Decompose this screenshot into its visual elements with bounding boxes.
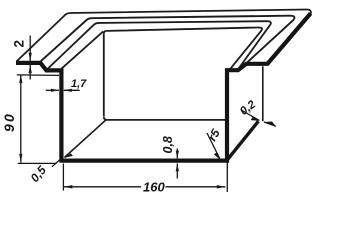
dimension 2 arrowhead lower <box>29 65 32 73</box>
dimension 2: leader line and arrows <box>29 36 31 80</box>
dimension 0,2: leader arrows at far bottom-right corner <box>241 110 260 121</box>
svg-text:90: 90 <box>1 112 17 132</box>
svg-text:160: 160 <box>143 180 165 195</box>
wire: far right wall silhouette vertical <box>262 66 264 121</box>
dimension 2 arrowhead upper <box>29 53 32 61</box>
wire: left flange outer edge receding to back rim (L1+T1) <box>16 9 311 61</box>
svg-text:0,8: 0,8 <box>161 136 175 153</box>
wire: flange bend line (L2+T2+R2) <box>40 16 294 64</box>
wire: interior back-bottom edge <box>104 117 226 120</box>
wire: interior bottom-left corner edge (doubles as 0.5 leader) <box>65 119 107 157</box>
dimension 0,5: arrowhead at bottom-left inner corner <box>64 153 73 158</box>
wire: bottom-right receding outer edge <box>228 121 259 159</box>
wire: inner rim edge (L4 diagonal) <box>60 31 103 70</box>
svg-text:1,7: 1,7 <box>71 78 87 90</box>
dimension r5: leader with arrow to inner bottom-right bend <box>207 133 220 159</box>
svg-text:2: 2 <box>12 40 27 48</box>
dimension 160 <box>63 163 227 193</box>
front section outline (thick cut line: left flange, left wall, bottom, right wall, right flange) <box>16 13 311 160</box>
dimension 1,7 <box>46 89 80 91</box>
dimension 0,8 <box>176 149 178 179</box>
wire: interior top edge + right inner bend (T4+R4) <box>107 27 262 68</box>
dimension 90 <box>17 74 59 163</box>
wire: wall-top bend line (L3+T3+R3) <box>47 21 271 70</box>
wire: interior back-left corner vertical <box>104 31 107 34</box>
